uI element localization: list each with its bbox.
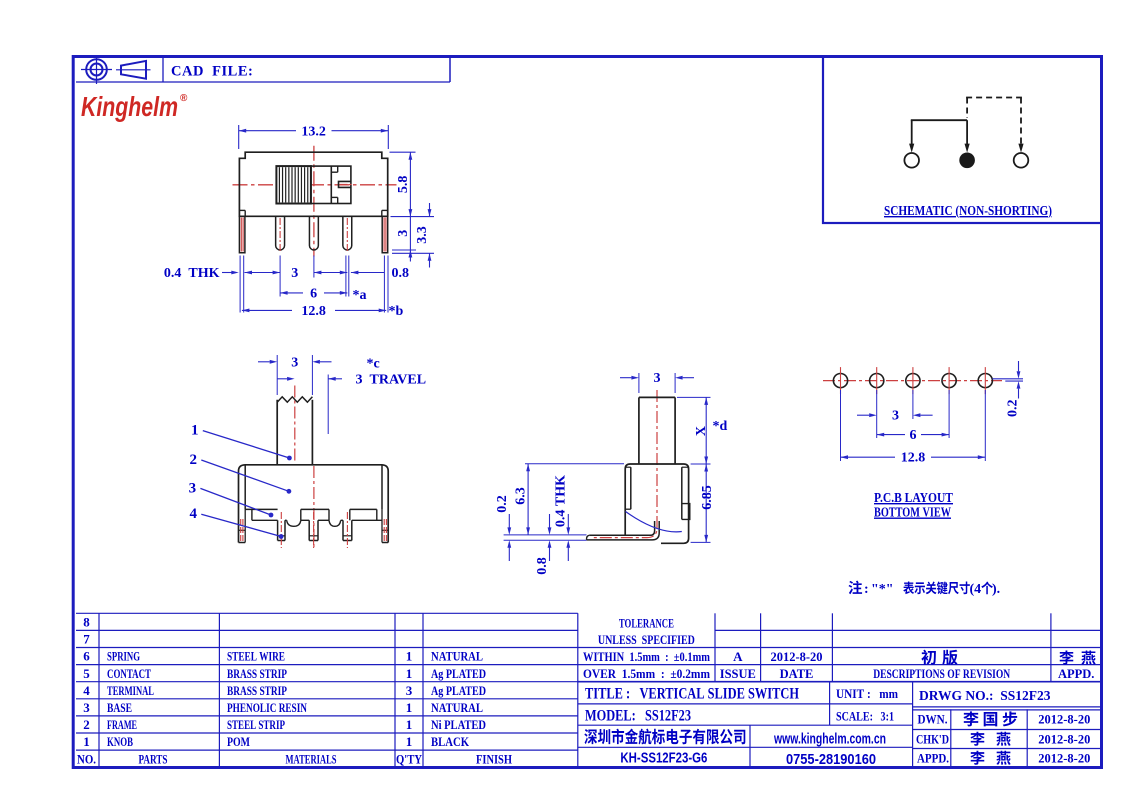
svg-text:Q'TY: Q'TY (396, 752, 422, 766)
svg-text:TOLERANCE: TOLERANCE (619, 616, 674, 630)
svg-text:MATERIALS: MATERIALS (286, 751, 337, 766)
svg-text:1: 1 (406, 717, 413, 732)
svg-text:CHK'D: CHK'D (916, 732, 949, 746)
svg-text:0.8: 0.8 (392, 266, 410, 281)
svg-text:BASE: BASE (107, 701, 132, 715)
svg-text:KNOB: KNOB (107, 735, 133, 749)
svg-text:NATURAL: NATURAL (431, 701, 483, 715)
svg-text:3: 3 (892, 409, 899, 424)
svg-text:1: 1 (406, 700, 413, 715)
svg-text:BRASS STRIP: BRASS STRIP (227, 667, 287, 681)
svg-text:FINISH: FINISH (476, 751, 512, 766)
svg-text:DRWG NO.: SS12F23: DRWG NO.: SS12F23 (919, 688, 1051, 703)
svg-text:Kinghelm: Kinghelm (81, 91, 178, 122)
svg-text:3 TRAVEL: 3 TRAVEL (356, 372, 427, 387)
svg-text:4: 4 (190, 506, 198, 522)
svg-text:2012-8-20: 2012-8-20 (1038, 713, 1090, 727)
svg-text:13.2: 13.2 (301, 124, 326, 139)
svg-text:A: A (733, 649, 743, 664)
svg-text:OVER 1.5mm : ±0.2mm: OVER 1.5mm : ±0.2mm (583, 667, 711, 681)
svg-text:STEEL STRIP: STEEL STRIP (227, 718, 285, 732)
svg-text:8: 8 (83, 615, 90, 630)
svg-text:DATE: DATE (780, 667, 814, 681)
svg-text:BOTTOM VIEW: BOTTOM VIEW (874, 506, 951, 521)
svg-text:6.3: 6.3 (514, 487, 529, 505)
svg-text:WITHIN 1.5mm : ±0.1mm: WITHIN 1.5mm : ±0.1mm (583, 650, 710, 664)
svg-text:TERMINAL: TERMINAL (107, 684, 154, 698)
svg-text:5.8: 5.8 (396, 176, 411, 194)
svg-text:6: 6 (910, 428, 917, 443)
svg-text:1: 1 (406, 734, 413, 749)
svg-text:3: 3 (291, 355, 298, 370)
svg-text:APPD.: APPD. (1058, 667, 1094, 681)
svg-text:Ag PLATED: Ag PLATED (431, 684, 486, 698)
svg-text:3: 3 (406, 683, 413, 698)
svg-text:P.C.B LAYOUT: P.C.B LAYOUT (874, 491, 954, 506)
svg-text:12.8: 12.8 (301, 304, 326, 319)
svg-text:0.2: 0.2 (495, 495, 510, 513)
svg-text:DWN.: DWN. (918, 713, 948, 727)
svg-text:TITLE : VERTICAL SLIDE SWITC: TITLE : VERTICAL SLIDE SWITCH (585, 686, 799, 703)
svg-text:3: 3 (83, 700, 90, 715)
svg-text:CONTACT: CONTACT (107, 667, 151, 681)
svg-text:*d: *d (713, 419, 728, 434)
svg-text:UNLESS SPECIFIED: UNLESS SPECIFIED (598, 633, 695, 647)
svg-text:UNIT : mm: UNIT : mm (836, 686, 898, 701)
svg-text:3: 3 (291, 266, 298, 281)
svg-text:"*": "*" (871, 582, 894, 597)
svg-text:6: 6 (310, 286, 317, 301)
svg-text:2: 2 (190, 452, 198, 468)
svg-text:SCHEMATIC (NON-SHORTING): SCHEMATIC (NON-SHORTING) (884, 204, 1052, 219)
svg-text:®: ® (180, 93, 188, 104)
svg-text:*a: *a (353, 288, 367, 303)
svg-text:PHENOLIC RESIN: PHENOLIC RESIN (227, 701, 307, 715)
svg-text:3.3: 3.3 (415, 226, 430, 244)
svg-text:2012-8-20: 2012-8-20 (1038, 751, 1090, 765)
svg-text:POM: POM (227, 735, 250, 749)
svg-text:1: 1 (406, 649, 413, 664)
svg-text:5: 5 (83, 666, 90, 681)
svg-text:1: 1 (191, 423, 199, 439)
svg-text:NATURAL: NATURAL (431, 650, 483, 664)
svg-text:APPD.: APPD. (917, 751, 949, 765)
svg-text::: : (864, 582, 869, 597)
svg-text:3: 3 (189, 480, 197, 496)
svg-text:SPRING: SPRING (107, 650, 140, 664)
svg-text:0755-28190160: 0755-28190160 (786, 751, 876, 768)
svg-text:MODEL: SS12F23: MODEL: SS12F23 (585, 707, 691, 724)
svg-text:1: 1 (83, 734, 90, 749)
svg-text:3: 3 (396, 230, 411, 237)
svg-text:7: 7 (83, 632, 90, 647)
svg-text:BRASS STRIP: BRASS STRIP (227, 684, 287, 698)
svg-text:KH-SS12F23-G6: KH-SS12F23-G6 (620, 751, 707, 767)
svg-text:0.4 THK: 0.4 THK (164, 266, 220, 281)
svg-text:Ag PLATED: Ag PLATED (431, 667, 486, 681)
svg-text:Ni PLATED: Ni PLATED (431, 718, 486, 732)
svg-text:*b: *b (389, 304, 404, 319)
svg-text:1: 1 (406, 666, 413, 681)
svg-text:2: 2 (83, 717, 90, 732)
svg-text:2012-8-20: 2012-8-20 (770, 650, 822, 664)
svg-text:ISSUE: ISSUE (720, 667, 756, 681)
svg-text:SCALE: 3:1: SCALE: 3:1 (836, 708, 894, 723)
svg-text:12.8: 12.8 (901, 451, 926, 466)
svg-text:0.8: 0.8 (535, 557, 550, 575)
svg-text:BLACK: BLACK (431, 735, 469, 749)
svg-text:FRAME: FRAME (107, 718, 137, 732)
svg-text:6: 6 (83, 649, 90, 664)
svg-text:3: 3 (654, 371, 661, 386)
svg-text:*c: *c (367, 357, 380, 372)
svg-text:PARTS: PARTS (139, 751, 168, 766)
svg-text:6.85: 6.85 (700, 485, 715, 510)
svg-text:2012-8-20: 2012-8-20 (1038, 732, 1090, 746)
svg-text:www.kinghelm.com.cn: www.kinghelm.com.cn (773, 732, 886, 748)
svg-text:).: ). (992, 582, 1000, 597)
svg-text:0.4 THK: 0.4 THK (554, 475, 569, 527)
svg-text:0.2: 0.2 (1005, 399, 1020, 417)
svg-text:(4: (4 (970, 582, 982, 597)
svg-text:NO.: NO. (77, 752, 96, 766)
svg-text:X: X (694, 426, 709, 436)
svg-text:STEEL WIRE: STEEL WIRE (227, 650, 285, 664)
svg-text:4: 4 (83, 683, 90, 698)
svg-text:DESCRIPTIONS OF REVISION: DESCRIPTIONS OF REVISION (873, 667, 1010, 681)
svg-text:CAD FILE:: CAD FILE: (171, 64, 253, 80)
